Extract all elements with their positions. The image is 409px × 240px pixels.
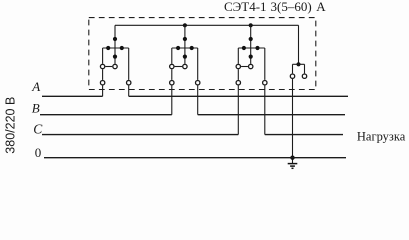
phase element 3: right coil wire [264, 48, 266, 80]
line C outgoing segment [265, 134, 343, 136]
neutral group: terminal right [302, 74, 306, 78]
phase element 2: wire down to line B out [197, 86, 199, 115]
neutral group: terminal left [290, 74, 294, 78]
phase element 3: current coil bar [238, 47, 264, 49]
phase element 1: wire terminal1 to lower terminal [102, 69, 104, 80]
svg-text:Нагрузка: Нагрузка [357, 129, 406, 143]
phase element 3: bar dot right [255, 46, 259, 50]
phase element 2: current coil bar [172, 47, 198, 49]
phase element 3: wire down to line C out [264, 86, 266, 135]
phase element 3: lower terminal right [263, 81, 267, 85]
neutral group: left stub [292, 64, 294, 73]
top voltage bus wire [115, 24, 299, 26]
phase element 1: winding dot lower [113, 55, 117, 59]
phase element 2: feed wire [184, 25, 186, 63]
line 0 neutral [44, 157, 346, 159]
phase element 2: left drop wire [171, 48, 173, 64]
phase element 2: lower terminal left [170, 81, 174, 85]
line B outgoing segment [198, 114, 345, 116]
neutral group: bar [293, 63, 305, 65]
ground symbol [288, 164, 298, 169]
phase element 1: lower terminal right [127, 81, 131, 85]
svg-text:А: А [316, 0, 326, 14]
svg-text:0: 0 [35, 145, 42, 160]
line A incoming segment [42, 95, 103, 97]
svg-text:С: С [33, 121, 43, 136]
phase element 3: wire down to line C in [237, 86, 239, 135]
phase element 3: winding dot upper [249, 37, 253, 41]
phase element 1: terminal 1 upper [100, 64, 104, 68]
phase element 1: terminal link [105, 66, 112, 68]
line A outgoing segment [129, 95, 348, 97]
meter enclosure dashed box [89, 18, 316, 90]
phase element 3: feed wire [250, 25, 252, 63]
phase element 2: bar dot right [190, 46, 194, 50]
phase element 3: left drop wire [237, 48, 239, 64]
phase element 1: bar dot right [120, 46, 124, 50]
svg-text:В: В [32, 100, 40, 115]
phase element 2: terminal 2 upper [183, 64, 187, 68]
phase element 2: terminal 1 upper [170, 64, 174, 68]
phase element 3: bar dot left [242, 46, 246, 50]
phase element 1: feed wire [114, 25, 116, 63]
phase element 2: wire terminal1 to lower terminal [171, 69, 173, 80]
svg-text:СЭТ4-1: СЭТ4-1 [224, 0, 267, 14]
phase element 1: current coil bar [103, 47, 129, 49]
line B incoming segment [40, 114, 172, 116]
phase element 2: winding dot lower [183, 55, 187, 59]
meter label СЭТ4-1 3(5-60) А [224, 0, 326, 14]
phase element 1: winding dot upper [113, 37, 117, 41]
line C incoming segment [42, 134, 238, 136]
phase element 1: wire down to line A out [128, 86, 130, 97]
phase element 2: winding dot upper [183, 37, 187, 41]
neutral group: right stub [304, 64, 306, 73]
phase element 1: lower terminal left [100, 81, 104, 85]
junction dot on top wire at element 3 [249, 23, 253, 27]
svg-text:380/220 В: 380/220 В [4, 97, 18, 154]
phase element 2: right coil wire [197, 48, 199, 80]
junction dot on line 0 [290, 156, 294, 160]
phase element 1: left drop wire [102, 48, 104, 64]
phase element 1: terminal 2 upper [113, 64, 117, 68]
svg-text:3(5–60): 3(5–60) [271, 0, 312, 14]
svg-text:А: А [31, 79, 40, 94]
neutral group: junction dot [296, 62, 300, 66]
neutral group: long wire down to line 0 [292, 79, 294, 163]
phase element 3: lower terminal left [236, 81, 240, 85]
junction dot on top wire at element 2 [183, 23, 187, 27]
phase element 1: bar dot left [106, 46, 110, 50]
phase element 2: terminal link [175, 66, 183, 68]
phase element 3: wire terminal1 to lower terminal [237, 69, 239, 80]
phase element 1: wire down to line A in [102, 86, 104, 97]
phase element 2: bar dot left [176, 46, 180, 50]
phase element 3: terminal link [241, 66, 248, 68]
phase element 3: terminal 1 upper [236, 64, 240, 68]
phase element 2: wire down to line B in [171, 86, 173, 115]
phase element 3: winding dot lower [249, 55, 253, 59]
phase element 1: right coil wire [128, 48, 130, 80]
phase element 2: lower terminal right [196, 81, 200, 85]
neutral group: feed wire from top bus [298, 25, 300, 64]
phase element 3: terminal 2 upper [249, 64, 253, 68]
